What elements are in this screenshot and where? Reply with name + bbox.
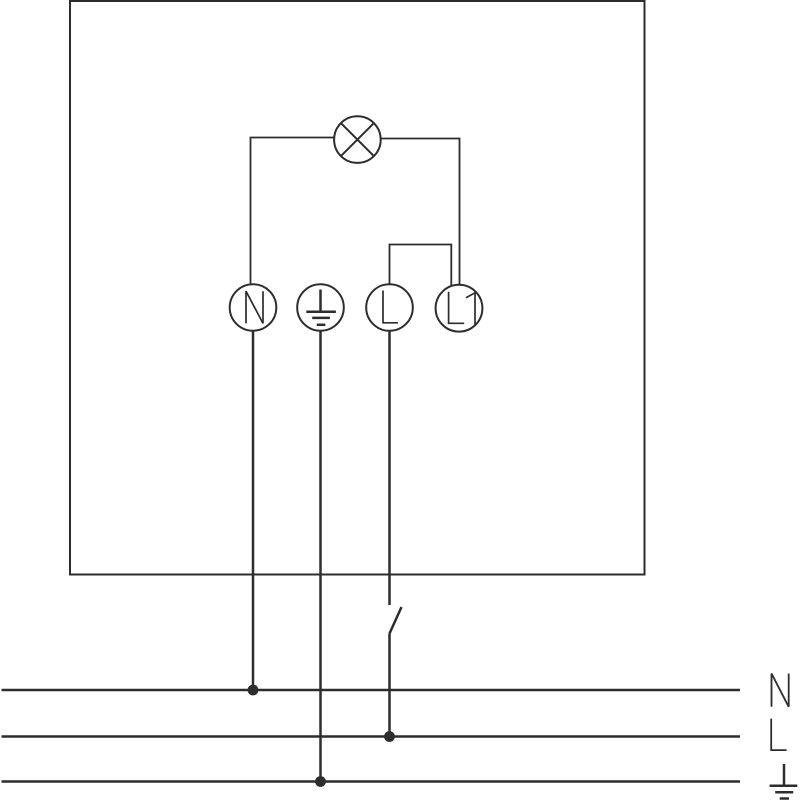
device outline rectangle	[70, 1, 645, 575]
N supply line	[2, 689, 741, 692]
wire switch down to L line	[388, 634, 391, 737]
wire PE terminal down to PE line	[319, 331, 322, 782]
label N (right)	[772, 674, 789, 707]
label L (right)	[771, 719, 786, 751]
terminal L1	[436, 285, 483, 332]
junction PE	[315, 776, 326, 787]
wire N terminal down to N line	[252, 331, 255, 690]
wire L terminal down to switch	[388, 331, 391, 605]
terminal N	[230, 284, 277, 331]
earth symbol	[306, 290, 336, 325]
wire lamp right to L1 terminal	[381, 139, 460, 286]
label N	[246, 291, 263, 323]
junction N	[248, 685, 259, 696]
lamp E1	[334, 116, 381, 163]
PE supply line	[2, 780, 741, 783]
wire lamp left to N terminal	[251, 138, 335, 285]
L supply line	[2, 735, 741, 738]
ground symbol (right)	[770, 764, 798, 799]
wire jumper L to L1	[390, 245, 452, 287]
label L1	[449, 292, 475, 325]
terminal L	[366, 284, 413, 331]
switch S1 blade	[390, 607, 402, 634]
label L	[383, 291, 398, 323]
junction L	[384, 731, 395, 742]
terminal PE	[297, 284, 344, 331]
